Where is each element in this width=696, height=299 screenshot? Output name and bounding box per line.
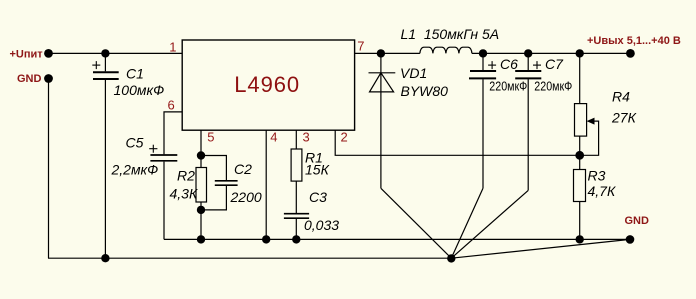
resistor R1 — [291, 149, 302, 181]
wire GND left lead down — [48, 79, 50, 259]
wire R1 to C3 — [295, 181, 297, 213]
svg-text:7: 7 — [357, 38, 364, 53]
node C1 lower bus junction — [101, 254, 109, 262]
wire pin 3 lead — [295, 130, 297, 149]
svg-text:0,033: 0,033 — [304, 217, 339, 233]
wire R2 bottom lead to bus — [200, 202, 202, 239]
svg-text:1: 1 — [169, 39, 176, 54]
svg-text:2200: 2200 — [230, 189, 262, 205]
svg-text:C3: C3 — [309, 189, 327, 205]
svg-text:2: 2 — [341, 130, 348, 145]
wire C1 top lead — [104, 53, 106, 71]
svg-text:C7: C7 — [545, 56, 564, 72]
svg-text:220мкФ: 220мкФ — [489, 80, 527, 94]
svg-text:GND: GND — [17, 73, 42, 85]
svg-text:3: 3 — [303, 130, 310, 145]
resistor R3 — [574, 170, 586, 202]
wire pin 7 to inductor — [354, 52, 420, 54]
node C6 top junction — [479, 49, 487, 57]
node GND right terminal — [626, 235, 635, 244]
node C3 bus junction — [292, 235, 300, 243]
wire diagonal lower bus to right GND terminal — [451, 239, 630, 258]
capacitor C2 — [215, 181, 238, 185]
svg-text:C6: C6 — [500, 56, 518, 72]
wire R4 wiper to bottom node — [580, 121, 599, 155]
svg-text:C2: C2 — [234, 161, 252, 177]
svg-text:L4960: L4960 — [234, 72, 300, 97]
node output terminal — [626, 49, 635, 58]
wire pin 6 stub — [164, 112, 182, 154]
wire C7 diagonal to star ground — [451, 190, 528, 258]
wire +Vin from terminal to IC pin 1 — [49, 52, 183, 54]
svg-text:100мкФ: 100мкФ — [114, 82, 165, 98]
wire C3 bottom lead — [295, 219, 297, 240]
node R3 bus junction — [576, 235, 584, 243]
wire R3 bottom lead to bus — [579, 202, 581, 240]
capacitor C6 — [469, 71, 496, 78]
svg-text:C5: C5 — [126, 135, 144, 151]
svg-text:R3: R3 — [588, 167, 606, 183]
wire inductor to output terminal — [472, 52, 631, 54]
node VD1 cathode junction — [377, 49, 385, 57]
node GND left terminal — [44, 74, 53, 83]
wire pin 4 lead to bus — [265, 130, 267, 239]
node R4 bottom junction — [575, 151, 584, 160]
node +Vin terminal — [44, 49, 53, 58]
wire upper ground bus — [164, 238, 630, 240]
svg-text:+Uвых 5,1...+40 В: +Uвых 5,1...+40 В — [587, 35, 681, 47]
wire lower ground bus — [48, 257, 451, 259]
node R2 bottom junction — [197, 206, 205, 214]
svg-text:R4: R4 — [612, 89, 630, 105]
wire VD1 anode lead down — [380, 92, 382, 188]
wire C6 top lead — [482, 53, 484, 70]
svg-text:15К: 15К — [305, 161, 330, 177]
svg-text:C1: C1 — [126, 66, 144, 82]
diode VD1 — [380, 53, 382, 92]
inductor L1 — [420, 47, 472, 53]
svg-text:R2: R2 — [177, 167, 195, 183]
node R2 bus junction — [197, 235, 205, 243]
svg-text:5: 5 — [207, 130, 214, 145]
wire pin 5 lead — [200, 130, 202, 168]
wire C6 diagonal to star ground — [451, 188, 483, 258]
svg-text:2,2мкФ: 2,2мкФ — [111, 162, 159, 178]
svg-text:220мкФ: 220мкФ — [534, 80, 572, 94]
wire C5 bottom lead — [163, 162, 165, 240]
svg-text:+Uпит: +Uпит — [10, 48, 44, 60]
capacitor C5 — [150, 155, 177, 161]
node R2 top junction — [197, 151, 205, 159]
R4 wiper arrowhead — [587, 118, 595, 125]
svg-text:L1 150мкГн 5А: L1 150мкГн 5А — [401, 26, 500, 42]
node pin4 bus junction — [262, 235, 270, 243]
resistor R2 — [196, 168, 207, 203]
svg-text:4,3К: 4,3К — [170, 186, 198, 202]
node C7 top junction — [524, 49, 532, 57]
capacitor C3 — [284, 214, 309, 219]
IC U1 L4960 regulator body — [182, 40, 354, 130]
node star ground junction — [447, 254, 455, 262]
wire C6 bottom lead — [482, 79, 484, 188]
svg-text:4,7К: 4,7К — [588, 183, 616, 199]
wire C7 top lead — [527, 53, 529, 70]
capacitor C7 — [515, 71, 541, 78]
svg-text:VD1: VD1 — [400, 65, 427, 81]
svg-text:GND: GND — [625, 215, 650, 227]
svg-text:27К: 27К — [611, 110, 637, 126]
wire C2 top branch — [201, 156, 226, 181]
wire pin 2 lead down and right — [335, 130, 580, 155]
svg-text:BYW80: BYW80 — [401, 83, 449, 99]
wire C7 bottom lead — [527, 79, 529, 190]
wire C1 bottom lead down to lower ground bus — [104, 80, 106, 258]
svg-text:6: 6 — [168, 98, 175, 113]
wire R4 bottom lead — [579, 136, 581, 169]
wire C2 bottom branch — [201, 186, 226, 210]
capacitor C1 — [93, 72, 119, 79]
resistor R4 potentiometer body — [575, 104, 587, 137]
svg-text:4: 4 — [270, 130, 277, 145]
node R4 top junction — [576, 49, 584, 57]
node C1 top junction — [101, 49, 109, 57]
wire R4 top lead — [579, 53, 581, 103]
wire VD1 diagonal to star ground — [381, 188, 451, 258]
